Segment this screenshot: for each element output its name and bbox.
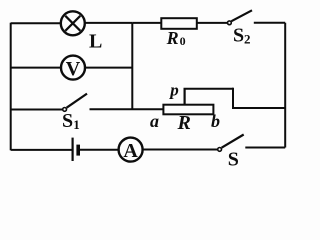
- svg-text:R: R: [177, 112, 191, 134]
- svg-text:1: 1: [73, 117, 80, 132]
- wire R0 to switch S2: [197, 22, 228, 24]
- wire step down: [232, 88, 234, 108]
- wire left rail: [10, 23, 12, 151]
- switch S2: [228, 21, 232, 25]
- lamp L: [61, 11, 85, 35]
- wire lamp to node T: [85, 22, 133, 24]
- wire right rail: [284, 23, 286, 148]
- wire bottom-left to battery: [11, 149, 72, 151]
- wire S2 to top-right corner: [254, 22, 285, 24]
- wire step to right rail: [232, 107, 285, 109]
- svg-text:a: a: [150, 111, 159, 131]
- wire S1 to rheostat terminal a: [90, 108, 164, 110]
- svg-text:S: S: [62, 110, 73, 132]
- voltmeter V: [61, 56, 85, 80]
- svg-text:V: V: [66, 58, 81, 80]
- wire voltmeter to middle rail: [85, 67, 132, 69]
- wire top-left to lamp: [11, 22, 61, 24]
- resistor R0: [161, 18, 197, 29]
- svg-text:S: S: [233, 24, 244, 46]
- ammeter A: [119, 138, 143, 162]
- svg-text:R: R: [166, 28, 179, 48]
- wire battery to ammeter: [80, 149, 119, 151]
- switch S1: [63, 108, 67, 112]
- rheostat slider p: [184, 89, 186, 105]
- svg-text:b: b: [211, 111, 220, 131]
- wire left rail to voltmeter: [11, 67, 61, 69]
- wire node T to resistor R0: [133, 22, 162, 24]
- wire middle rail: [131, 23, 133, 109]
- rheostat R track: [163, 105, 213, 115]
- svg-text:2: 2: [244, 32, 251, 47]
- wire left rail to switch S1: [11, 109, 63, 111]
- wire slider to step: [184, 88, 234, 90]
- battery: [71, 138, 73, 161]
- switch S: [218, 148, 222, 152]
- svg-text:S: S: [228, 149, 239, 171]
- wire ammeter to switch S: [143, 149, 218, 151]
- svg-text:p: p: [168, 81, 179, 100]
- svg-text:L: L: [89, 31, 102, 53]
- wire S to bottom-right corner: [245, 147, 285, 149]
- svg-text:A: A: [123, 140, 138, 162]
- svg-text:0: 0: [180, 34, 186, 48]
